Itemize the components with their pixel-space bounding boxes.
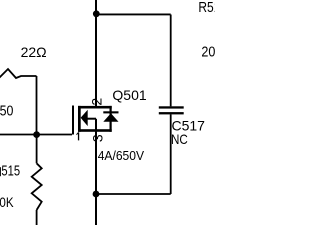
svg-text:22Ω: 22Ω — [21, 44, 47, 60]
svg-text:2: 2 — [89, 98, 105, 106]
svg-text:515: 515 — [1, 164, 20, 180]
svg-text:50: 50 — [0, 104, 13, 120]
svg-text:3: 3 — [89, 134, 105, 142]
svg-text:4A/650V: 4A/650V — [98, 149, 145, 163]
svg-text:R51: R51 — [198, 0, 215, 16]
svg-text:Q501: Q501 — [112, 87, 146, 103]
svg-text:0K: 0K — [0, 194, 14, 210]
svg-text:NC: NC — [171, 131, 188, 147]
svg-text:200: 200 — [201, 44, 215, 60]
